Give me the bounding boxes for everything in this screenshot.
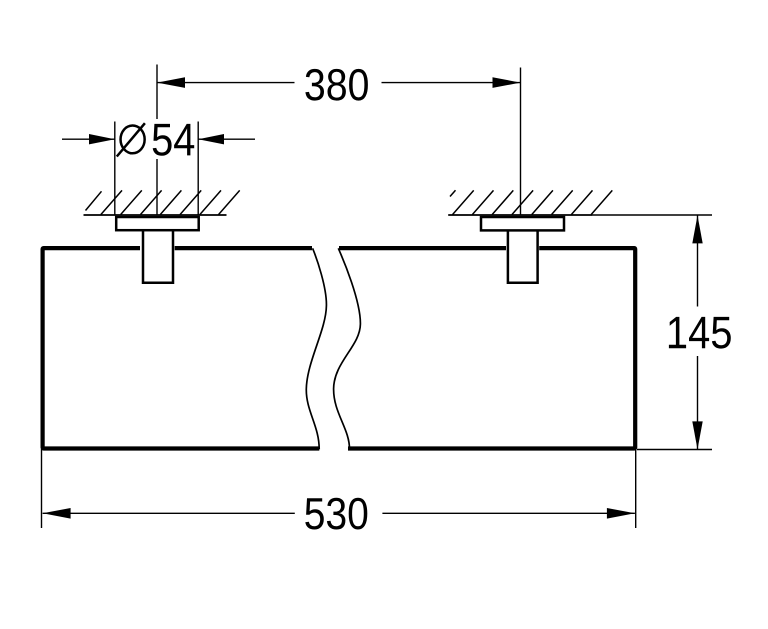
dim 54 text [153, 124, 195, 156]
centerline right bracket / extension for 380 [520, 68, 522, 216]
extension line left for 530 [41, 449, 43, 528]
dim 145 bottom arrow [692, 421, 702, 449]
diameter symbol [117, 123, 145, 156]
centerline left bracket / extension for 380 [156, 65, 158, 216]
dim 530 line [43, 512, 635, 514]
dim 530 text [305, 498, 367, 530]
dim 145 text [669, 317, 731, 349]
dim 380 text [305, 69, 368, 101]
extension lines for dia 54 [115, 122, 198, 216]
dim 380 line [157, 82, 521, 84]
right bracket wall plate [481, 217, 564, 230]
break squiggle right [334, 248, 361, 449]
left bracket stem [140, 230, 175, 283]
dim 530 left arrow [43, 508, 71, 519]
dim 380 right arrow [493, 77, 521, 88]
left bracket wall plate [116, 217, 199, 230]
dim 145 line [697, 216, 699, 450]
break squiggle left [306, 248, 326, 449]
dim dia54 right arrow [198, 134, 224, 144]
dim dia54 left arrow [89, 134, 115, 144]
dim dia54 right leader [198, 138, 255, 140]
dim 530 right arrow [607, 508, 635, 519]
wall line right [448, 214, 592, 216]
right bracket stem [506, 230, 539, 283]
dim 145 top arrow [692, 215, 702, 243]
extension line top for 145 [592, 214, 712, 216]
wall hatching left [86, 190, 240, 214]
extension line bottom for 145 [637, 449, 712, 451]
shelf body left part [43, 248, 320, 448]
extension line right for 530 [635, 450, 637, 528]
wall hatching right [450, 190, 612, 214]
wall line left [84, 214, 227, 216]
shelf body right part [339, 248, 635, 448]
dim dia54 left leader [62, 138, 115, 140]
dim 380 left arrow [157, 77, 185, 88]
